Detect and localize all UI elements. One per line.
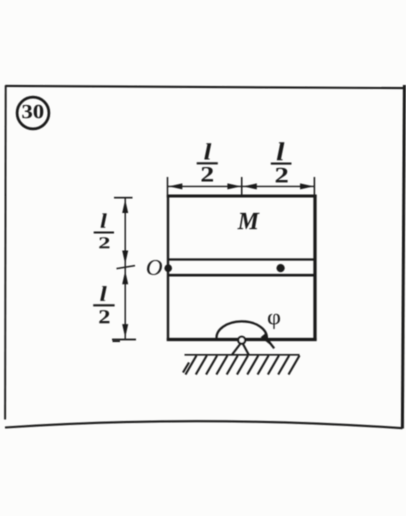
label l/2 left-upper: denominator 2 [99,237,109,248]
left dimension tick bottom doubled dash [113,340,121,342]
label l/2 left-lower: fraction bar [93,304,114,306]
ground hatching [183,356,300,375]
left dimension tick middle [117,266,136,269]
left dimension arrow down-bottom [122,324,128,338]
label M [237,213,259,229]
top dimension extension tick left [167,177,169,195]
pivot hinge circle [238,337,245,344]
frame border bottom [5,421,403,428]
plate right edge [313,195,316,341]
left dimension tick bottom [112,339,136,341]
left dimension arrow up-middle [122,271,128,285]
label l/2 top-right: fraction bar [271,163,292,165]
point dot on rod [277,264,285,272]
label l/2 top-left: denominator 2 [202,167,214,182]
label l/2 top-right: denominator 2 [276,168,288,183]
label l/2 left-lower: denominator 2 [99,310,109,323]
frame border left [4,86,7,420]
top dimension arrow right-in [243,183,256,189]
plate top edge [167,195,317,198]
top dimension extension tick right [313,177,315,195]
plate bottom edge [167,338,317,341]
pivot triangle left leg [232,343,242,356]
top dimension arrow left-out [169,183,183,189]
pivot triangle right leg [242,343,249,356]
problem number circle 30 [17,97,49,129]
frame border right [402,85,404,429]
label l/2 left-upper: fraction bar [94,231,114,233]
top dimension arrow right-out [300,183,314,189]
point O dot on left edge [164,264,172,272]
angle phi arc [217,321,275,348]
left dimension arrow down-middle [122,251,128,265]
plate left edge [167,195,169,341]
top dimension line [168,185,315,187]
label l/2 left-upper: numerator l [101,213,107,227]
label l/2 top-left: numerator l [204,143,211,159]
left dimension line [124,198,126,340]
left dimension arrow up-top [122,200,128,214]
label O [147,260,162,275]
rod slot upper line [168,258,315,260]
ground line [185,354,300,356]
label l/2 left-lower: numerator l [100,286,107,301]
frame border top [5,86,403,88]
label l/2 top-left: fraction bar [197,162,218,164]
angle phi arrowhead [261,333,272,346]
rod slot lower line [168,274,315,277]
label l/2 top-right: numerator l [277,142,285,160]
left dimension tick top [114,197,133,199]
top dimension arrow left-in [227,183,241,189]
top dimension extension tick middle [241,177,243,196]
label phi [268,314,280,329]
